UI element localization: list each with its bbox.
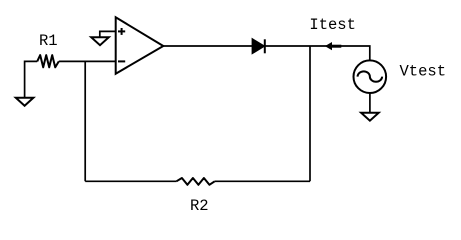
resistor R1 xyxy=(37,55,59,67)
resistor R2 xyxy=(176,178,214,185)
wire xyxy=(100,31,116,37)
wire xyxy=(215,180,310,182)
ground xyxy=(16,98,34,106)
wire xyxy=(25,61,38,97)
svg-text:Vtest: Vtest xyxy=(400,63,447,81)
wire xyxy=(59,60,116,62)
svg-text:R1: R1 xyxy=(39,32,58,50)
wire xyxy=(163,46,370,60)
svg-text:Itest: Itest xyxy=(309,16,356,34)
op-amp U1 xyxy=(116,17,164,73)
ground xyxy=(361,113,379,121)
svg-text:R2: R2 xyxy=(190,197,209,215)
voltage source Vtest xyxy=(354,60,387,93)
wire xyxy=(84,61,86,181)
wire xyxy=(369,94,371,113)
ground xyxy=(91,37,109,45)
wire xyxy=(85,180,176,182)
wire xyxy=(309,46,311,181)
diode D1 xyxy=(253,39,265,53)
current arrow Itest xyxy=(325,42,341,50)
